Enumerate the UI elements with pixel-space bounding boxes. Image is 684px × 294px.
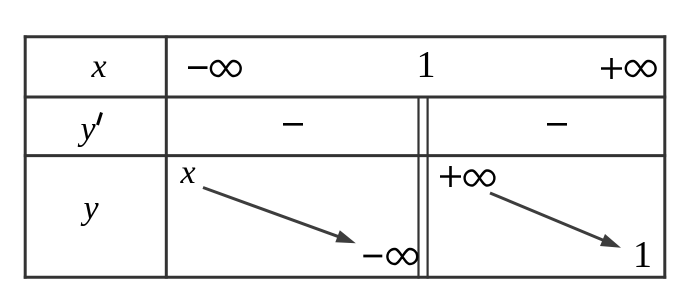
svg-text:1: 1: [417, 44, 436, 86]
svg-text:y: y: [80, 190, 99, 227]
svg-text:x: x: [90, 48, 106, 85]
svg-text:y: y: [77, 111, 96, 148]
svg-text:1: 1: [633, 234, 652, 276]
svg-text:x: x: [179, 154, 195, 191]
